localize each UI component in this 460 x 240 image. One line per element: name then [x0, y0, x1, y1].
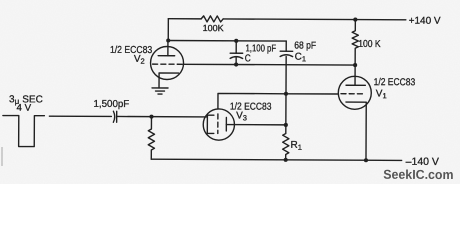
- capacitor C1 plates: [280, 51, 293, 56]
- resistor 100K (vertical, V1 plate load): [352, 20, 358, 66]
- tube V1 grid (dashed): [341, 93, 364, 95]
- wire: V2 grid line to V1 plate node: [183, 63, 355, 66]
- resistor (input grid leak): [148, 117, 154, 160]
- tube V1 envelope: [338, 76, 371, 109]
- node: grid line / 100K / V1 plate junction: [353, 63, 357, 67]
- capacitor C plates: [230, 53, 243, 58]
- ground (V2 cathode): [152, 88, 168, 94]
- input pulse waveform: [3, 116, 45, 147]
- node: capacitor C top junction: [234, 39, 238, 43]
- tube V3 grid (dashed vertical): [217, 114, 219, 133]
- capacitor C leads: [235, 41, 237, 65]
- node: V3 plate / R1 junction: [284, 123, 288, 127]
- wire: vertical from top rail to V2 plate node: [167, 19, 169, 41]
- wire: -140V bottom rail: [151, 159, 401, 160]
- node: input junction: [149, 115, 153, 119]
- wire: input to coupling capacitor: [49, 115, 111, 117]
- resistor 100K (horizontal, V2 plate load): [201, 16, 223, 22]
- tube V2 plate lead: [167, 41, 169, 56]
- node: V1 cathode / bottom rail junction: [364, 158, 368, 162]
- tube V1 plate bar: [346, 84, 365, 86]
- scan artifact: left edge streak: [1, 147, 3, 166]
- capacitor C1 top lead from plate line: [285, 41, 287, 51]
- capacitor 1,500pF plates: [113, 111, 116, 122]
- node X junction: [284, 92, 288, 96]
- wire: +140V top rail left segment: [168, 18, 201, 20]
- wire: +140V top rail right segment: [223, 18, 406, 21]
- wire: node X to V1 grid: [286, 93, 338, 95]
- wire: V2 plate node horizontal line: [168, 40, 286, 43]
- tube V2 grid (dashed): [153, 63, 183, 65]
- node: capacitor C bottom junction: [234, 62, 238, 66]
- tube V2 envelope: [150, 46, 183, 79]
- wire: coupling capacitor to junction and V3 cathode: [117, 115, 208, 117]
- capacitor C1 bottom lead to node X: [285, 57, 287, 94]
- resistor R1: [283, 94, 290, 160]
- node: +140V rail / 100K junction: [353, 18, 357, 22]
- tube V3 cathode bracket: [207, 115, 214, 133]
- tube V3 plate bar: [225, 117, 227, 130]
- scan noise overlay: [0, 0, 1, 1]
- node: V2 plate corner junction: [166, 38, 170, 42]
- tube V3 envelope: [203, 109, 234, 140]
- wire: node X to V3 grid: [218, 93, 286, 109]
- tube V2 cathode: [159, 73, 179, 88]
- tube V1 top lead (plate to grid-line node): [354, 65, 356, 85]
- tube V2 plate bar: [158, 55, 174, 57]
- node: R1 / bottom rail junction: [284, 158, 288, 162]
- tube V1 cathode: [346, 102, 367, 160]
- wire: V3 plate to R1: [226, 124, 285, 126]
